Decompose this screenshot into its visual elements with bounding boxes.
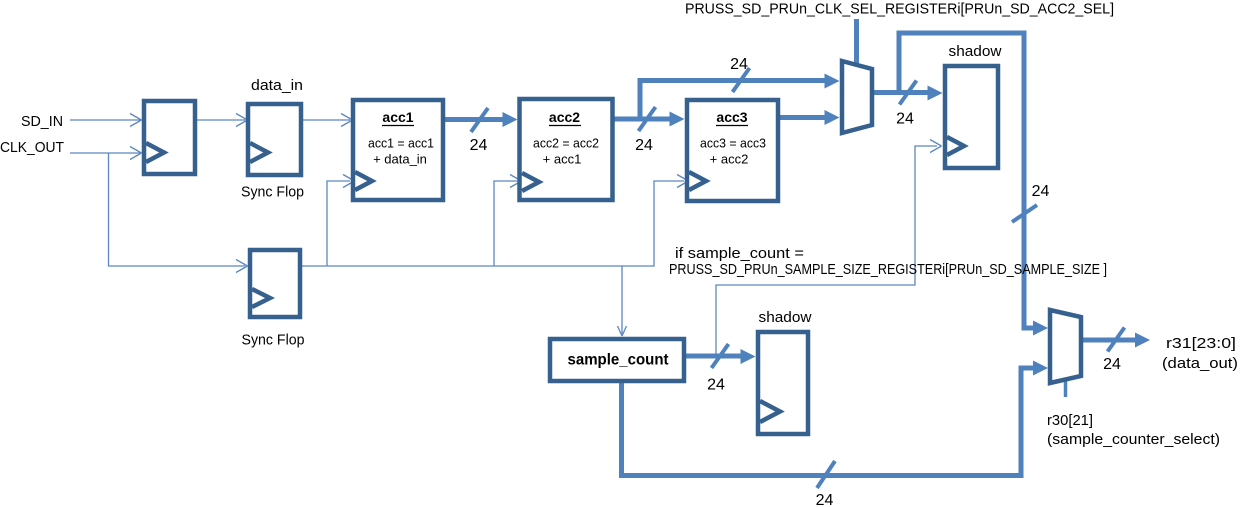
svg-text:+ data_in: + data_in <box>373 152 427 167</box>
sample_count box <box>550 339 684 381</box>
svg-text:sample_count: sample_count <box>568 352 670 369</box>
svg-text:data_in: data_in <box>251 77 303 94</box>
svg-text:24: 24 <box>635 137 653 154</box>
svg-text:shadow: shadow <box>949 43 1002 60</box>
wire CLK_OUT branch to Sync Flop 2 <box>109 153 248 273</box>
bus width slash on bottom bus <box>817 461 835 488</box>
bus sample_count bottom loop to mux U2 bottom input <box>622 361 1049 476</box>
wire Sync Flop 1 out to acc1 data <box>301 114 353 127</box>
register shadow2 bottom <box>758 332 808 434</box>
mux U2 <box>1050 310 1081 383</box>
svg-text:+ acc1: + acc1 <box>543 152 582 167</box>
bus mux U2 out to r31 <box>1081 333 1150 348</box>
svg-text:24: 24 <box>1032 183 1050 200</box>
bus mux U1 out to shadow1 <box>872 86 943 101</box>
svg-text:acc3 = acc3: acc3 = acc3 <box>700 136 766 151</box>
bus width slash acc2-acc3 <box>639 107 656 131</box>
clock chevron FF1 <box>146 143 164 162</box>
wire dropper to sample_count clock <box>618 266 627 336</box>
clock chevron SF1 <box>250 143 268 162</box>
svg-text:24: 24 <box>730 56 748 73</box>
svg-text:+ acc2: + acc2 <box>710 152 749 167</box>
wire SD_IN to FF1 <box>70 114 142 127</box>
svg-text:PRUSS_SD_PRUn_CLK_SEL_REGISTER: PRUSS_SD_PRUn_CLK_SEL_REGISTERi[PRUn_SD_… <box>685 1 1114 18</box>
svg-text:24: 24 <box>1103 356 1121 373</box>
svg-text:acc2: acc2 <box>549 109 580 125</box>
svg-text:24: 24 <box>470 137 488 154</box>
wire if-condition to shadow1 clock <box>716 140 942 357</box>
svg-text:if sample_count =: if sample_count = <box>675 245 804 262</box>
bus sample_count out to shadow2 <box>686 349 756 364</box>
bus acc2 to acc3 <box>613 112 685 127</box>
mux U1 <box>842 61 872 133</box>
wire riser to acc2 clock <box>494 175 522 267</box>
svg-text:24: 24 <box>816 492 834 507</box>
bus width slash mux2 out <box>1108 328 1125 352</box>
svg-text:acc3: acc3 <box>716 109 747 125</box>
svg-text:(data_out): (data_out) <box>1162 355 1238 372</box>
svg-text:Sync Flop: Sync Flop <box>241 184 304 201</box>
svg-text:(sample_counter_select): (sample_counter_select) <box>1047 431 1220 448</box>
clock chevron acc2 <box>522 173 539 191</box>
sync flop SF2 <box>250 250 300 317</box>
clock chevron SF2 <box>252 289 270 307</box>
wire FF1 out to Sync Flop 1 <box>195 114 248 127</box>
bus width slash sample_count-shadow2 <box>712 344 729 368</box>
svg-text:acc1 = acc1: acc1 = acc1 <box>368 136 434 151</box>
accumulator acc3 box <box>687 100 778 201</box>
wire clock trunk from Sync Flop 2 to acc3 clock <box>300 175 689 267</box>
svg-text:r30[21]: r30[21] <box>1047 412 1093 429</box>
svg-text:r31[23:0]: r31[23:0] <box>1166 335 1236 352</box>
clock chevron shadow1 <box>947 137 964 155</box>
svg-text:24: 24 <box>896 111 914 128</box>
wire mux U2 select stub <box>1064 380 1068 397</box>
clock chevron acc3 <box>689 172 706 190</box>
bus mux U1 select from register <box>854 19 859 63</box>
bus acc2 tap to mux U1 top input <box>640 74 840 120</box>
clock chevron shadow2 <box>760 401 780 422</box>
svg-text:24: 24 <box>707 377 725 394</box>
svg-text:acc2 = acc2: acc2 = acc2 <box>533 136 599 151</box>
flip-flop FF1 <box>144 101 195 174</box>
bus acc1 to acc2 <box>445 112 518 127</box>
wire CLK_OUT to FF1 clock <box>70 147 142 160</box>
svg-text:SD_IN: SD_IN <box>21 113 63 130</box>
sync flop SF1 <box>248 104 301 175</box>
accumulator acc1 box <box>353 100 443 200</box>
svg-text:CLK_OUT: CLK_OUT <box>0 139 64 156</box>
bus width slash on right vertical <box>1012 205 1037 222</box>
bus width slash acc1-acc2 <box>471 108 488 132</box>
bus mux U1 out loop to mux U2 top input <box>899 33 1048 336</box>
svg-text:PRUSS_SD_PRUn_SAMPLE_SIZE_REGI: PRUSS_SD_PRUn_SAMPLE_SIZE_REGISTERi[PRUn… <box>669 261 1107 278</box>
register shadow1 top <box>945 66 998 168</box>
bus width slash on tap bus <box>733 68 750 92</box>
bus width slash mux1 out <box>900 81 917 105</box>
bus acc3 out to mux U1 bottom input <box>780 110 840 125</box>
accumulator acc2 box <box>520 99 613 200</box>
clock chevron acc1 <box>355 172 372 190</box>
svg-text:shadow: shadow <box>759 309 812 326</box>
svg-text:acc1: acc1 <box>382 109 413 125</box>
svg-text:Sync Flop: Sync Flop <box>242 332 305 349</box>
wire riser to acc1 clock <box>327 175 355 267</box>
